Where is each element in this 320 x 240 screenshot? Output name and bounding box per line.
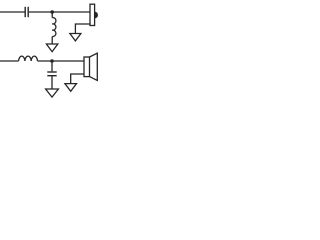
woofer LS2 cone — [90, 53, 98, 80]
tweeter LS1 dome — [95, 12, 98, 19]
wire node B down — [51, 61, 53, 71]
wire C2 to ground — [51, 76, 53, 89]
node B (junction dot, bottom) — [50, 59, 54, 63]
wire C1 to tweeter — [29, 11, 90, 13]
wire woofer return — [71, 74, 84, 84]
wire L1 to woofer — [38, 60, 85, 62]
woofer LS2 body — [84, 57, 90, 77]
wire input top — [0, 11, 25, 13]
ground (under C2) — [46, 89, 59, 97]
inductor L2 (shunt coil) — [52, 18, 56, 37]
wire node A down — [51, 12, 53, 18]
wire tweeter return — [75, 24, 90, 34]
node A (junction dot, top) — [50, 10, 54, 14]
tweeter LS1 body — [90, 4, 95, 25]
wire input bottom — [0, 60, 19, 62]
wire L2 to ground — [51, 37, 53, 45]
ground (woofer) — [65, 84, 77, 92]
ground (under L2) — [46, 44, 57, 52]
inductor L1 (series, low-pass) — [19, 56, 38, 61]
capacitor C1 (series, high-pass) — [25, 7, 28, 17]
capacitor C2 (shunt) — [47, 72, 56, 76]
ground (tweeter) — [70, 34, 81, 41]
